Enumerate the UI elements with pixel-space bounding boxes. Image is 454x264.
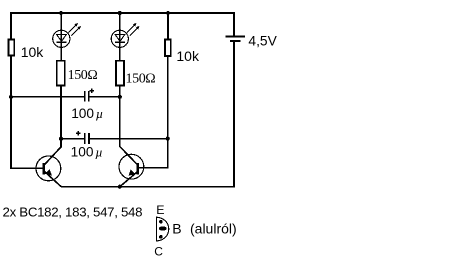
junction dot top LED2 — [118, 11, 122, 15]
svg-text:4,5V: 4,5V — [248, 33, 277, 48]
TO-92 package bottom view — [156, 217, 169, 242]
junction dot Q2 emitter — [118, 185, 122, 189]
wire cap2 left — [61, 138, 84, 140]
resistor R3 150 ohm — [116, 61, 124, 86]
junction dot top 10k right — [166, 11, 170, 15]
wire cap2 right — [89, 138, 168, 140]
capacitor C2 plates — [85, 133, 89, 144]
svg-text:E: E — [156, 203, 164, 217]
junction dot cap2 right — [166, 137, 170, 141]
capacitor C1 plus sign — [89, 88, 94, 93]
LED D2 — [111, 23, 139, 48]
wire top rail — [10, 12, 235, 14]
svg-text:150Ω: 150Ω — [126, 71, 156, 86]
wire cap1 left — [11, 96, 84, 98]
junction dot left cap1 — [9, 95, 13, 99]
svg-text:B: B — [172, 220, 181, 236]
svg-text:10k: 10k — [21, 44, 45, 60]
resistor R1 10k — [8, 39, 14, 55]
wire cap1 right — [89, 96, 120, 98]
junction dot cap1 right — [118, 95, 122, 99]
junction dot cap2 left — [59, 137, 63, 141]
svg-text:(alulról): (alulról) — [190, 220, 237, 236]
wire bottom rail — [61, 186, 235, 188]
resistor R4 10k — [165, 39, 171, 56]
wire 10k right column upper — [167, 12, 169, 39]
wire LED2 column — [119, 12, 121, 60]
svg-text:10k: 10k — [176, 48, 200, 64]
transistor Q2 — [119, 147, 144, 187]
junction dot top LED1 — [59, 11, 63, 15]
resistor R2 150 ohm — [57, 61, 65, 86]
svg-text:C: C — [154, 245, 163, 259]
LED D1 — [53, 23, 81, 48]
wire LED1 column lower — [60, 86, 62, 147]
package pin bar B — [159, 227, 167, 231]
package pin dot E — [159, 220, 163, 224]
wire Q2 base feed — [138, 139, 168, 168]
battery B1 — [226, 12, 246, 187]
package pin dot C — [159, 235, 163, 239]
svg-text:2x BC182, 183, 547, 548: 2x BC182, 183, 547, 548 — [3, 204, 143, 219]
svg-text:150Ω: 150Ω — [68, 68, 98, 83]
capacitor C2 plus sign — [76, 131, 81, 136]
wire 10k right column lower — [167, 57, 169, 139]
transistor Q1 — [36, 139, 61, 187]
wire LED2 column lower — [119, 86, 121, 147]
capacitor C1 plates — [85, 91, 89, 102]
wire left column upper — [10, 12, 12, 39]
wire left column lower + Q1 base feed — [11, 56, 44, 168]
svg-text:100µ: 100µ — [71, 145, 103, 160]
wire LED1 column — [60, 12, 62, 60]
svg-text:100µ: 100µ — [71, 106, 103, 121]
